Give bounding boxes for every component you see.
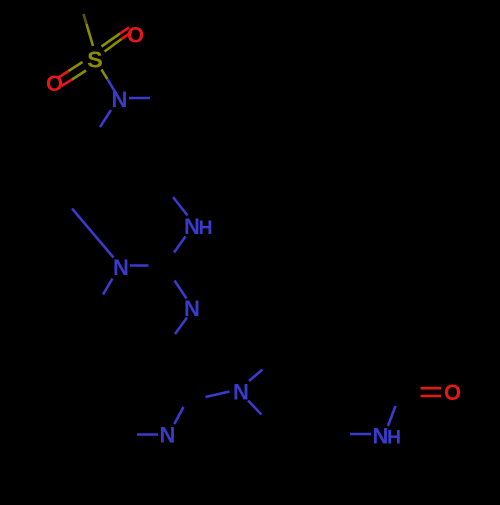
svg-text:O: O [127,23,144,48]
svg-text:H: H [198,217,212,239]
svg-text:N: N [113,255,129,280]
svg-text:N: N [112,87,128,112]
svg-text:H: H [387,427,401,449]
svg-text:N: N [184,296,200,321]
svg-text:N: N [160,423,176,448]
svg-text:S: S [87,47,103,73]
svg-text:N: N [233,380,249,405]
svg-text:O: O [46,71,63,96]
svg-text:O: O [444,380,461,405]
